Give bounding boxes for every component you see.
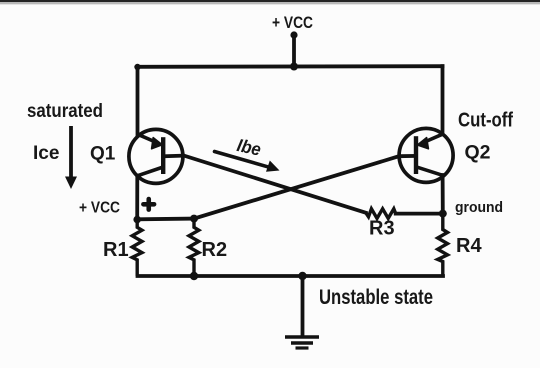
node ground junction — [298, 272, 306, 280]
arrow Ice — [65, 126, 77, 189]
wire: diagonal Q1 base to R3 — [163, 156, 366, 213]
wire: ground stub — [301, 276, 305, 336]
svg-text:Unstable state: Unstable state — [319, 286, 433, 309]
svg-text:R4: R4 — [456, 235, 482, 257]
node R1 top junction — [133, 216, 141, 224]
wire: left vertical below Q1 — [135, 176, 139, 222]
svg-text:Cut-off: Cut-off — [458, 109, 513, 131]
wire: horizontal node wire R1-R2 — [137, 217, 194, 221]
svg-text:Q1: Q1 — [90, 144, 116, 165]
ground — [285, 337, 319, 348]
wire: top rail — [138, 64, 443, 68]
resistor R1 — [132, 221, 142, 276]
label bold plus at R1 node — [143, 199, 154, 210]
svg-text:R2: R2 — [202, 239, 228, 261]
wire: right vertical (collector Q2 feed) — [441, 66, 445, 134]
wire: diagonal Q2 base to R2 node — [194, 156, 416, 219]
svg-text:R1: R1 — [103, 239, 129, 261]
wire: R3 right to ground node — [396, 212, 443, 216]
svg-text:Ice: Ice — [33, 143, 59, 164]
resistor R3 — [366, 209, 396, 219]
top border line — [0, 0, 540, 2]
resistor R4 — [438, 214, 448, 276]
node Q2 emitter ground junction — [439, 210, 447, 218]
arrow Ibe — [215, 152, 280, 172]
transistor Q1 — [129, 129, 183, 183]
wire: VCC stub — [292, 35, 296, 67]
wire: left vertical (collector Q1 feed) — [136, 67, 140, 135]
wire: bottom rail — [138, 274, 444, 278]
svg-text:+ VCC: + VCC — [79, 200, 120, 217]
resistor R2 — [189, 219, 199, 276]
wire: right vertical below Q2 — [441, 175, 445, 214]
node VCC rail junction — [290, 63, 298, 71]
svg-text:R3: R3 — [369, 218, 395, 240]
svg-text:saturated: saturated — [27, 101, 103, 122]
node R2 top junction — [190, 215, 198, 223]
node R2 bottom junction — [190, 272, 198, 280]
svg-text:ground: ground — [455, 199, 503, 216]
transistor Q2 — [399, 128, 453, 182]
node VCC stub top dot — [290, 31, 297, 38]
svg-text:Q2: Q2 — [465, 142, 491, 164]
node top-left corner — [134, 64, 140, 70]
svg-text:+ VCC: + VCC — [272, 13, 313, 32]
